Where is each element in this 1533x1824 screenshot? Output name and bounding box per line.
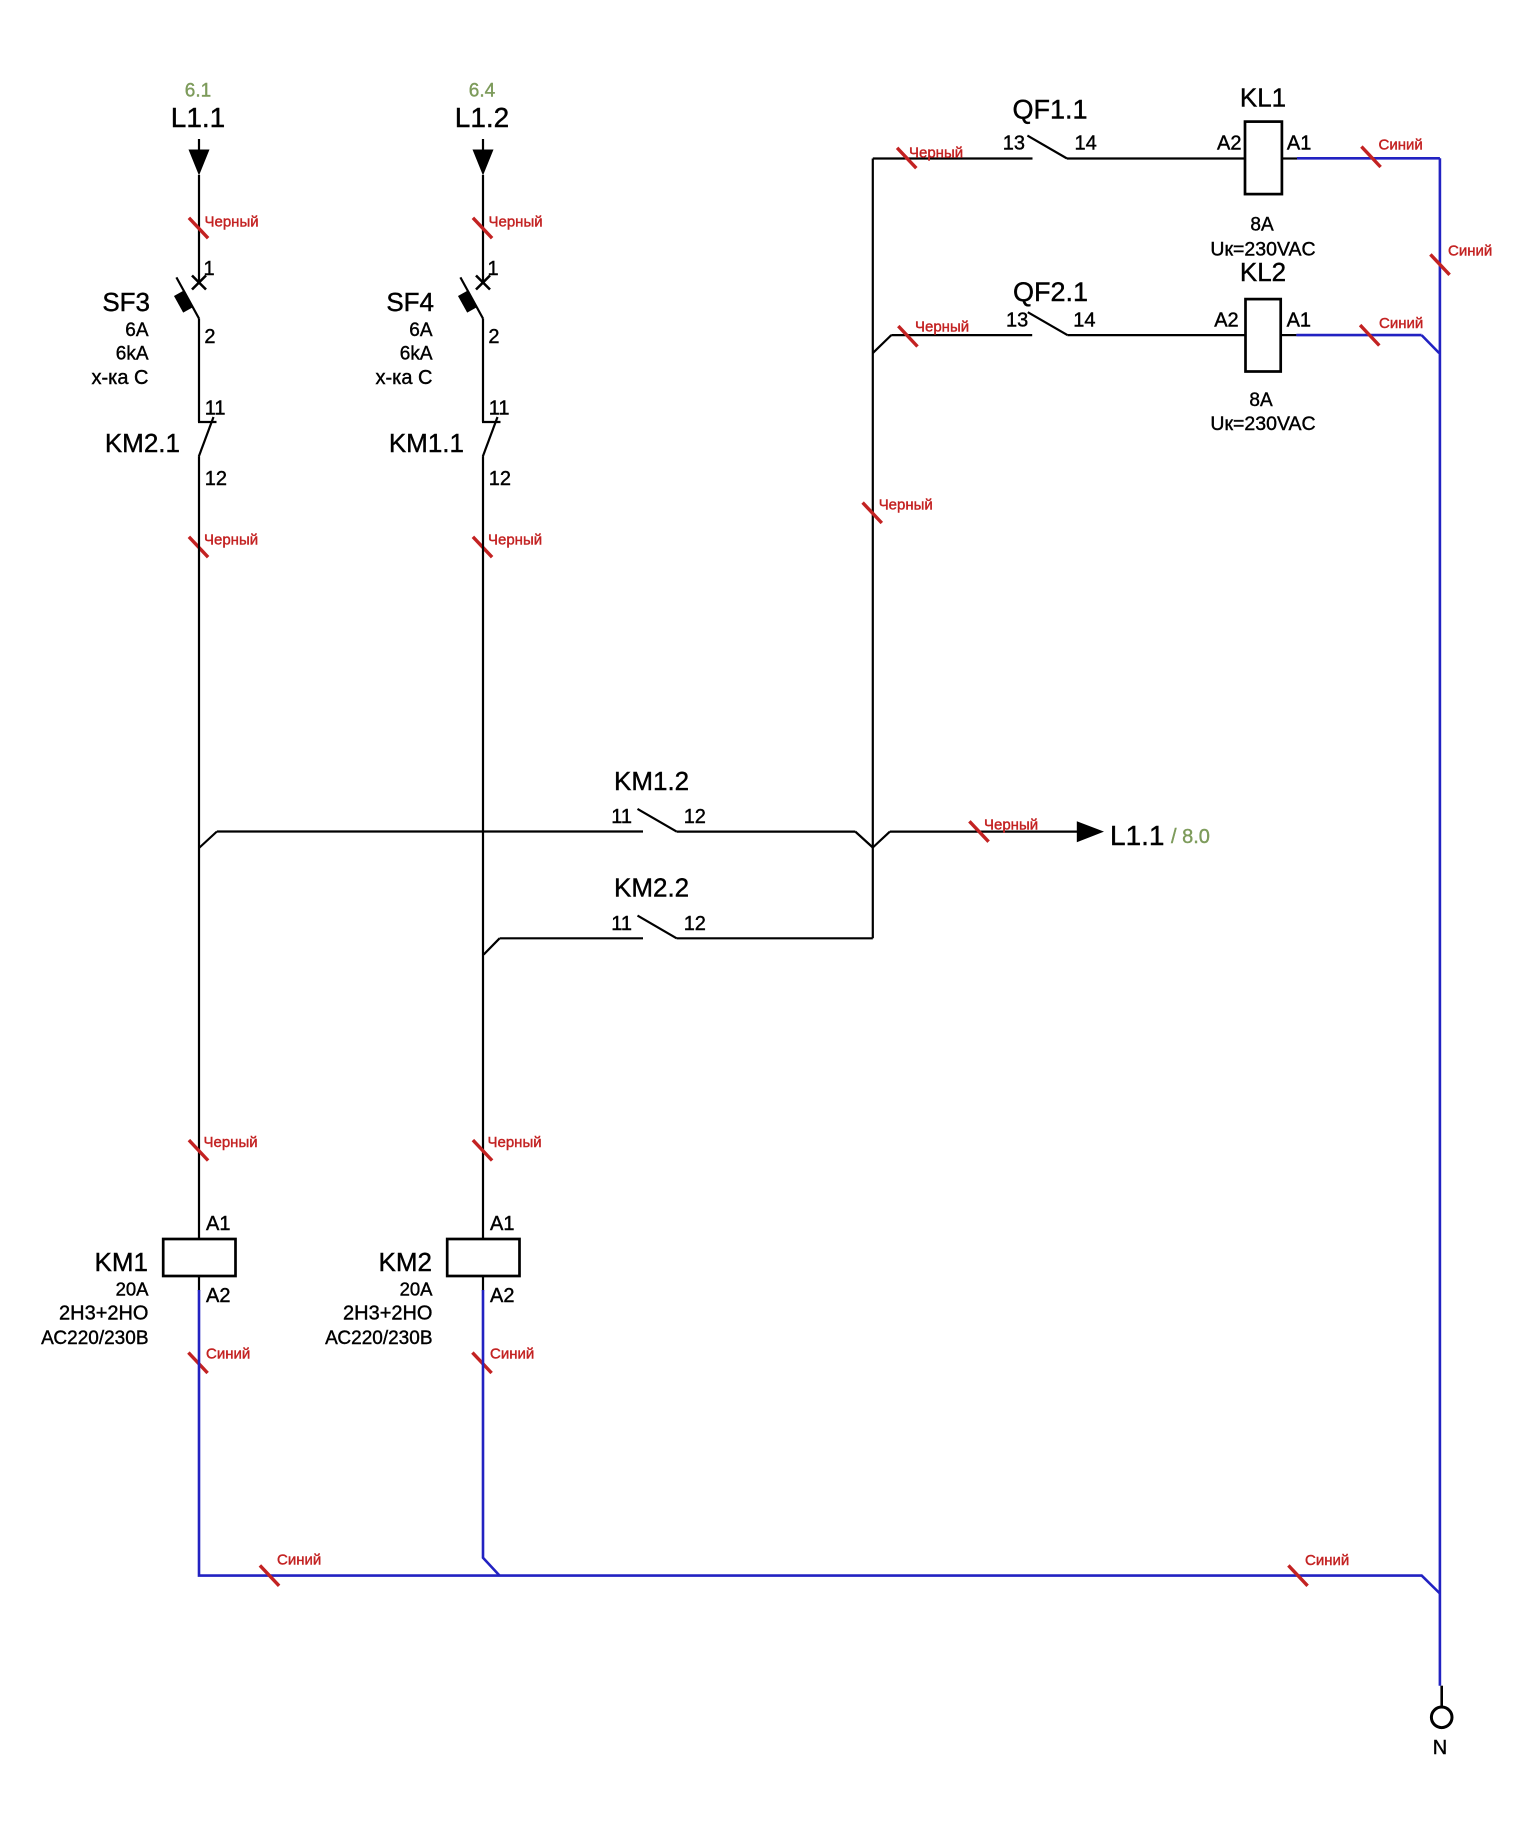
wire label Черный (L1.1 below KM2.1) — [189, 537, 208, 557]
svg-text:12: 12 — [684, 913, 706, 935]
svg-text:11: 11 — [489, 398, 510, 420]
wire KL2 to blue trunk — [1281, 334, 1297, 336]
svg-text:Черный: Черный — [488, 532, 542, 549]
black trunk wire (right) — [872, 159, 874, 939]
wire L1.2 branch to contact KM2.2 — [500, 937, 643, 939]
svg-text:Синий: Синий — [206, 1346, 250, 1363]
blue wire KM1 A2 down to neutral bus — [199, 1290, 1440, 1594]
svg-text:6A: 6A — [125, 320, 149, 341]
svg-text:Черный: Черный — [204, 532, 258, 549]
branch jog L1.1 to KM1.2 row — [199, 832, 217, 849]
svg-text:A2: A2 — [490, 1285, 514, 1307]
out arrow to L1.1 / 8.0 — [1077, 821, 1104, 842]
svg-text:A1: A1 — [1287, 133, 1311, 155]
svg-text:х-ка С: х-ка С — [376, 367, 433, 389]
wire L1.2 to SF4 — [482, 175, 484, 282]
NC contact KM2.1 — [198, 421, 217, 423]
svg-text:12: 12 — [684, 806, 706, 828]
switch QF2.1 — [1028, 312, 1068, 335]
wire label Синий (KM1 branch) — [188, 1353, 207, 1373]
svg-text:8A: 8A — [1250, 215, 1274, 236]
svg-text:8A: 8A — [1249, 390, 1273, 411]
svg-text:12: 12 — [489, 468, 511, 490]
wire label Черный (L1.2 top) — [473, 218, 492, 238]
svg-text:Черный: Черный — [488, 1134, 542, 1151]
svg-text:A2: A2 — [1214, 310, 1238, 332]
svg-text:N: N — [1433, 1737, 1447, 1759]
wire below KM2 — [482, 1276, 484, 1291]
wire SF3 to KM2.1 — [198, 319, 200, 423]
svg-text:KM1.1: KM1.1 — [389, 428, 464, 458]
wire label Синий (KM2 branch) — [472, 1353, 491, 1373]
svg-text:KL1: KL1 — [1240, 83, 1286, 113]
svg-text:SF3: SF3 — [102, 287, 150, 317]
blue trunk wire (right) — [1439, 158, 1442, 1685]
wire QF2.1 to KL2 — [1067, 334, 1245, 336]
wire below KM1 — [198, 1276, 200, 1291]
wire L1.1 branch to contact KM1.2 — [217, 830, 643, 832]
svg-text:/ 8.0: / 8.0 — [1171, 826, 1210, 848]
relay KL1 — [1245, 122, 1282, 195]
svg-text:KL2: KL2 — [1240, 257, 1286, 287]
svg-text:KM1.2: KM1.2 — [614, 766, 689, 796]
svg-text:A1: A1 — [1287, 310, 1311, 332]
svg-text:20A: 20A — [116, 1279, 150, 1300]
svg-text:A2: A2 — [1217, 133, 1241, 155]
coil KM1 — [163, 1239, 235, 1276]
svg-text:2: 2 — [204, 326, 215, 348]
svg-text:L1.1: L1.1 — [171, 102, 226, 133]
wire QF1.1 to KL1 — [1067, 157, 1245, 159]
switch QF1.1 — [1027, 136, 1067, 159]
wire label Синий (neutral bus left) — [260, 1565, 279, 1585]
wire SF4 to KM1.1 — [482, 319, 484, 423]
svg-text:Uк=230VAC: Uк=230VAC — [1210, 413, 1315, 435]
wire KM1.2 to trunk junction — [677, 830, 856, 832]
svg-text:A2: A2 — [206, 1285, 230, 1307]
svg-text:Черный: Черный — [984, 817, 1038, 834]
wire label Черный (QF2.1 row) — [898, 326, 917, 346]
svg-text:Синий: Синий — [1448, 243, 1492, 260]
svg-text:KM1: KM1 — [95, 1247, 148, 1277]
junction jog trunk to L1.1 out arrow — [873, 832, 890, 848]
source arrow L1.1 — [198, 139, 200, 151]
terminal N — [1440, 1686, 1443, 1707]
wire L1.1 to SF3 — [198, 175, 200, 282]
wire KM2.2 to trunk corner — [677, 937, 873, 939]
svg-text:Черный: Черный — [915, 319, 969, 336]
svg-text:Синий: Синий — [277, 1552, 321, 1569]
wire KM1.1 to coil KM2 — [482, 457, 484, 1240]
svg-text:KM2: KM2 — [379, 1247, 432, 1277]
svg-text:Синий: Синий — [490, 1346, 534, 1363]
branch jog trunk to QF2.1 row — [873, 335, 892, 353]
svg-text:2: 2 — [488, 326, 499, 348]
wire label Черный (trunk) — [863, 503, 882, 523]
source arrow L1.2 — [482, 139, 484, 151]
relay KL2 — [1246, 299, 1281, 371]
svg-text:20A: 20A — [400, 1279, 434, 1300]
wire trunk to QF1.1 — [873, 157, 1033, 159]
blue wire KM2 A2 down, jog to neutral bus — [483, 1290, 500, 1576]
svg-text:6kA: 6kA — [400, 344, 433, 365]
svg-text:KM2.1: KM2.1 — [105, 428, 180, 458]
svg-text:L1.1: L1.1 — [1110, 820, 1165, 851]
wire KM2.1 to coil KM1 — [198, 457, 200, 1240]
wire label Черный (above KM1) — [189, 1140, 208, 1160]
NC contact KM1.1 — [482, 421, 501, 423]
svg-text:14: 14 — [1073, 310, 1095, 332]
svg-text:13: 13 — [1006, 310, 1028, 332]
svg-text:Синий: Синий — [1379, 137, 1423, 154]
svg-text:Синий: Синий — [1305, 1552, 1349, 1569]
svg-text:2Н3+2НО: 2Н3+2НО — [59, 1303, 149, 1325]
svg-text:11: 11 — [611, 913, 632, 935]
wire label Черный (above KM2) — [473, 1140, 492, 1160]
wire label Синий (KL1 row) — [1361, 147, 1380, 167]
svg-text:L1.2: L1.2 — [455, 102, 510, 133]
wire label Синий (neutral bus right) — [1288, 1565, 1307, 1585]
svg-text:SF4: SF4 — [386, 287, 434, 317]
svg-text:2Н3+2НО: 2Н3+2НО — [343, 1303, 433, 1325]
wire label Черный (L1.2 below KM1.1) — [473, 537, 492, 557]
breaker SF4 — [476, 276, 490, 290]
svg-text:6A: 6A — [409, 320, 433, 341]
svg-text:6.1: 6.1 — [185, 81, 211, 102]
svg-text:6.4: 6.4 — [469, 81, 496, 102]
wire label Черный (QF1.1 row) — [897, 148, 916, 168]
svg-text:Черный: Черный — [205, 214, 259, 231]
svg-text:A1: A1 — [206, 1213, 230, 1235]
svg-text:KM2.2: KM2.2 — [614, 873, 689, 903]
svg-text:14: 14 — [1075, 133, 1097, 155]
svg-text:11: 11 — [205, 398, 226, 420]
svg-text:A1: A1 — [490, 1213, 514, 1235]
breaker SF3 — [192, 276, 206, 290]
wire KL1 to blue trunk — [1282, 157, 1297, 159]
coil KM2 — [447, 1239, 519, 1276]
NO contact KM2.2 — [638, 916, 677, 939]
svg-text:Черный: Черный — [909, 145, 963, 162]
wire trunk to QF2.1 — [891, 334, 1032, 336]
svg-text:12: 12 — [205, 468, 227, 490]
svg-text:АС220/230В: АС220/230В — [325, 1328, 432, 1349]
svg-text:11: 11 — [611, 806, 632, 828]
svg-text:Черный: Черный — [204, 1134, 258, 1151]
svg-text:Черный: Черный — [879, 497, 933, 514]
wire label Синий (KL2 row) — [1360, 325, 1379, 345]
wire label Черный (out arrow) — [969, 821, 988, 841]
svg-text:АС220/230В: АС220/230В — [41, 1328, 148, 1349]
svg-text:6kA: 6kA — [116, 344, 149, 365]
svg-text:QF2.1: QF2.1 — [1013, 277, 1088, 307]
svg-text:Черный: Черный — [489, 214, 543, 231]
wire label Синий (blue trunk) — [1430, 254, 1449, 274]
svg-text:х-ка С: х-ка С — [92, 367, 149, 389]
wire junction to out arrow L1.1 — [890, 830, 1078, 832]
svg-text:Синий: Синий — [1379, 315, 1423, 332]
branch jog L1.2 to KM2.2 row — [484, 938, 500, 954]
wire label Черный (L1.1 top) — [189, 218, 208, 238]
svg-text:13: 13 — [1003, 133, 1025, 155]
svg-text:QF1.1: QF1.1 — [1012, 95, 1087, 125]
NO contact KM1.2 — [638, 809, 677, 832]
